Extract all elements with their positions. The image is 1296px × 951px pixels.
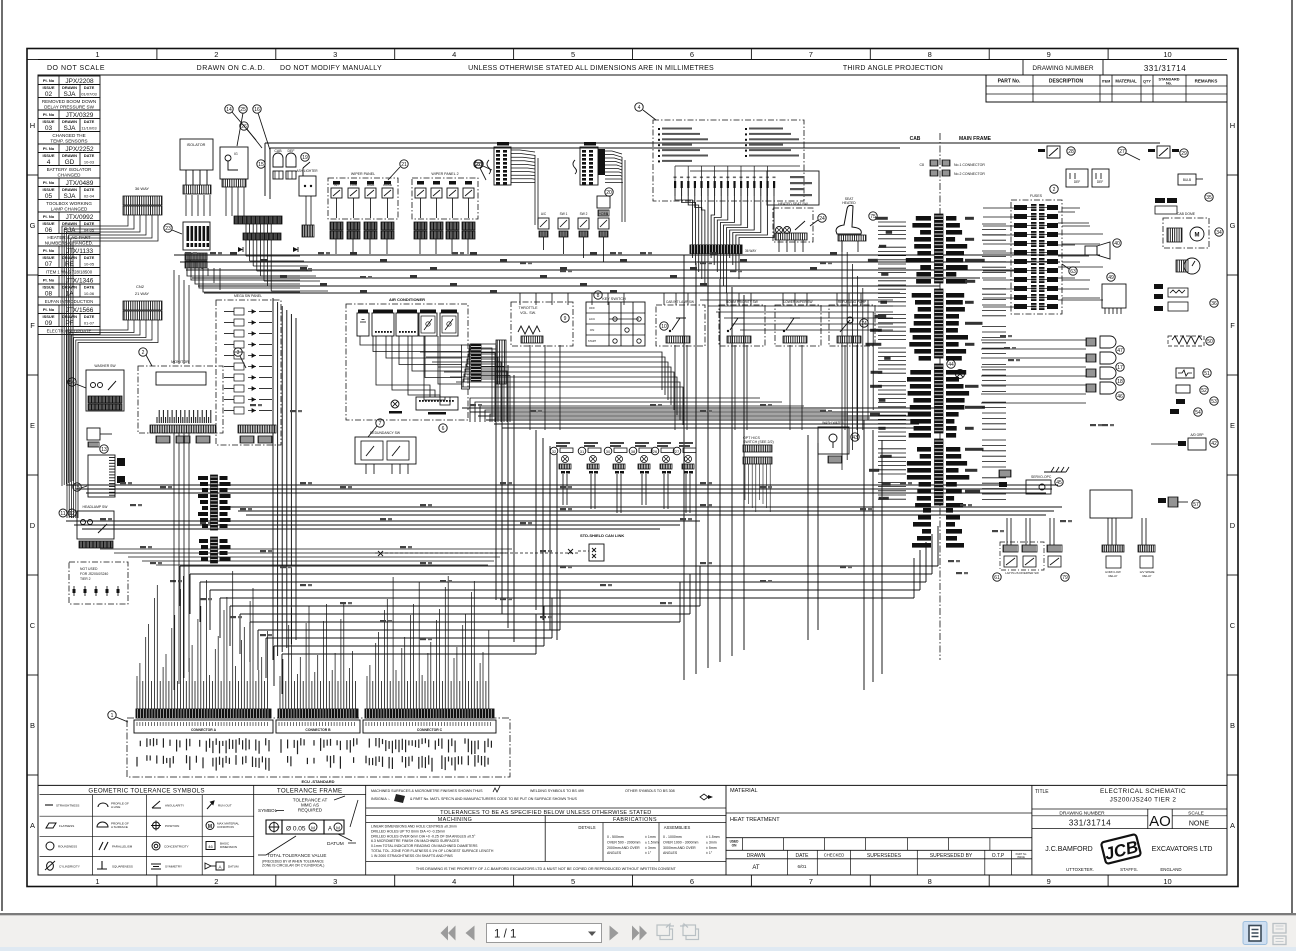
svg-text:WASH WATER: WASH WATER — [822, 421, 844, 425]
svg-text:ISSUE: ISSUE — [42, 153, 54, 158]
sheet size cell AO — [1148, 809, 1172, 830]
relay R29 — [1148, 146, 1179, 158]
svg-text:DATE: DATE — [84, 221, 95, 226]
boom priority switch box — [719, 300, 765, 346]
lower-left feeder lines — [100, 549, 512, 565]
svg-text:GEOMETRIC TOLERANCE SYMBOLS: GEOMETRIC TOLERANCE SYMBOLS — [88, 787, 205, 794]
svg-text:MEGA SW PANEL: MEGA SW PANEL — [234, 294, 262, 298]
svg-text:MACHINING: MACHINING — [438, 817, 472, 823]
callout 17 — [1116, 363, 1124, 371]
svg-text:Ø 0.05: Ø 0.05 — [286, 826, 306, 833]
viewer right window edge — [1291, 0, 1293, 913]
svg-text:08: 08 — [45, 290, 53, 297]
CAN link connector — [375, 544, 604, 561]
svg-text:0 - 500mm: 0 - 500mm — [607, 835, 624, 839]
svg-text:DETAILS: DETAILS — [578, 825, 595, 830]
svg-text:TEMP. SENSORS: TEMP. SENSORS — [50, 138, 87, 143]
horn low/high relay — [1102, 545, 1124, 578]
svg-text:FUSES: FUSES — [1030, 194, 1043, 198]
svg-text:12: 12 — [69, 511, 75, 517]
svg-text:61: 61 — [994, 575, 1000, 581]
svg-text:SERVO-OPC: SERVO-OPC — [1031, 475, 1052, 479]
svg-text:CAB: CAB — [274, 149, 282, 153]
callout 28 — [1067, 147, 1075, 155]
svg-text:± 1mm: ± 1mm — [645, 835, 656, 839]
svg-text:CAB DOME: CAB DOME — [1177, 212, 1196, 216]
revision history table — [38, 76, 100, 335]
svg-text:ON: ON — [732, 844, 737, 848]
svg-text:IG: IG — [234, 152, 238, 156]
tolerance symbol angularity — [152, 801, 184, 808]
wiper panel 2 connectors — [414, 181, 475, 254]
wires fanning from CN2 — [67, 320, 158, 518]
svg-text:NOT USED: NOT USED — [80, 567, 98, 571]
redundancy switch box — [355, 431, 416, 474]
svg-text:DO NOT SCALE: DO NOT SCALE — [47, 65, 105, 72]
callout 54 — [1194, 408, 1202, 416]
used on row — [726, 838, 1032, 851]
monitor connector strip — [150, 425, 216, 433]
svg-text:3: 3 — [333, 877, 337, 886]
callout 7 — [368, 419, 384, 437]
wire bus upper (battery feeds) — [174, 255, 1100, 293]
relay R28 — [1038, 146, 1060, 158]
wiper motor switch box — [86, 364, 124, 411]
callout 15b — [73, 483, 87, 491]
cab int lamp switch box — [656, 300, 705, 346]
svg-text:WIPER PANEL 2: WIPER PANEL 2 — [431, 172, 458, 176]
svg-text:KEY SWITCH: KEY SWITCH — [602, 297, 626, 301]
horn H3 — [1086, 367, 1116, 379]
bus risers left cluster — [190, 255, 220, 290]
resistor bank top right — [1168, 336, 1204, 346]
callout 20a — [475, 160, 492, 170]
cab dome lamp box — [1163, 212, 1209, 248]
svg-text:TOLERANCE FRAME: TOLERANCE FRAME — [277, 787, 343, 794]
tolerance symbol basic dimension — [206, 842, 237, 850]
svg-text:No.2 CONNECTOR: No.2 CONNECTOR — [954, 172, 985, 176]
left margin long verticals — [174, 270, 189, 690]
svg-text:02: 02 — [45, 91, 53, 98]
mega switch rows — [224, 308, 272, 414]
svg-text:CONNECTOR A: CONNECTOR A — [191, 728, 217, 732]
svg-text:M: M — [1195, 233, 1200, 239]
wire bus lower B — [230, 507, 1062, 515]
svg-text:ASH LIGHTER: ASH LIGHTER — [296, 169, 318, 173]
wiper panel 1 connectors — [330, 181, 394, 254]
svg-text:10: 10 — [661, 324, 667, 330]
callout 9 — [561, 314, 569, 322]
svg-text:DRAWN: DRAWN — [62, 85, 77, 90]
callout 51 — [1203, 369, 1211, 377]
air conditioner box — [346, 297, 468, 420]
starter key unit box — [220, 147, 248, 179]
svg-text:REMARKS: REMARKS — [1195, 79, 1218, 84]
svg-text:EXCAVATORS LTD: EXCAVATORS LTD — [1152, 846, 1213, 853]
svg-text:ECU -STANDARD: ECU -STANDARD — [301, 779, 334, 784]
callout 29 — [1180, 149, 1188, 157]
svg-text:THROTTLE: THROTTLE — [519, 306, 539, 310]
surface finish note line 1 — [371, 786, 675, 793]
svg-text:16: 16 — [254, 107, 260, 113]
svg-text:35: 35 — [1206, 195, 1212, 201]
callout 25 — [237, 105, 247, 146]
servo opc unit — [999, 470, 1052, 494]
callout 23 — [164, 224, 182, 234]
svg-text:32: 32 — [552, 449, 557, 454]
svg-text:63: 63 — [1070, 269, 1076, 275]
svg-text:JTX/0489: JTX/0489 — [66, 180, 94, 187]
svg-text:02-04: 02-04 — [84, 193, 95, 198]
aux comps right F — [1154, 284, 1188, 311]
misc sender — [1176, 399, 1185, 404]
svg-text:8: 8 — [928, 50, 932, 59]
svg-text:30: 30 — [606, 449, 611, 454]
svg-text:40: 40 — [1114, 241, 1120, 247]
svg-text:UNLESS OTHERWISE STATED ALL DI: UNLESS OTHERWISE STATED ALL DIMENSIONS A… — [468, 65, 714, 72]
wire top right run — [265, 143, 1160, 199]
svg-text:11: 11 — [60, 511, 65, 517]
svg-text:C: C — [1230, 621, 1236, 630]
throttle volume switch box — [511, 302, 573, 346]
callout 14 — [225, 105, 256, 140]
previous page button — [466, 926, 475, 941]
svg-text:RUN OUT: RUN OUT — [218, 804, 232, 808]
svg-text:331/31714: 331/31714 — [1144, 64, 1186, 73]
callout 36 — [1210, 299, 1218, 307]
ash lighter drop wire — [306, 196, 311, 225]
svg-text:20: 20 — [606, 190, 612, 196]
svg-text:REDUNDANCY SW: REDUNDANCY SW — [370, 431, 401, 435]
svg-text:VOL. SW.: VOL. SW. — [520, 311, 536, 315]
svg-text:UTTOXETER.: UTTOXETER. — [1066, 867, 1094, 872]
stack-to-right wires mid — [981, 340, 1086, 403]
title section — [1032, 785, 1186, 875]
svg-text:09: 09 — [45, 320, 53, 327]
horn H1 — [1086, 336, 1116, 348]
svg-text:HEAT TREATMENT: HEAT TREATMENT — [730, 817, 780, 823]
ECU wire label bars C — [366, 738, 491, 772]
svg-text:Pl. No: Pl. No — [43, 146, 55, 151]
legend pin up-stubs — [675, 166, 800, 181]
wires from connector 23 — [187, 268, 300, 292]
tolerance frame datum label — [327, 834, 356, 847]
svg-text:Pl. No: Pl. No — [43, 248, 55, 253]
svg-text:6: 6 — [690, 50, 694, 59]
vertical wire bundle right of centre — [808, 420, 882, 690]
tolerance symbol cylindricity — [45, 861, 80, 870]
svg-text:A: A — [328, 827, 332, 833]
tolerance symbol straightness — [45, 804, 79, 808]
svg-text:MAIN FRAME: MAIN FRAME — [959, 136, 992, 142]
svg-text:A/D GRP: A/D GRP — [1190, 433, 1203, 437]
fuel sender — [1176, 368, 1194, 378]
svg-text:DRAWN: DRAWN — [62, 221, 77, 226]
svg-text:± 1.5mm: ± 1.5mm — [706, 835, 720, 839]
callout 45 — [1055, 478, 1063, 486]
tolerance symbol parallelism — [99, 842, 133, 850]
svg-text:WELDING SYMBOLS TO BS 499: WELDING SYMBOLS TO BS 499 — [530, 789, 584, 793]
callout 11 12 — [59, 509, 76, 517]
svg-text:24: 24 — [819, 216, 825, 222]
svg-text:23: 23 — [165, 226, 171, 232]
wires below main cab connector — [693, 254, 740, 294]
main harness connector strip lower — [243, 233, 281, 240]
svg-text:RELAY: RELAY — [1109, 574, 1118, 578]
svg-text:DATUM: DATUM — [327, 841, 344, 847]
ECU connector B — [276, 709, 360, 733]
connector block with fan (console) — [573, 142, 623, 185]
wires fanning from CN1 — [62, 215, 158, 486]
svg-text:JTX/1566: JTX/1566 — [66, 307, 94, 314]
wire bus mid (cab harness) — [462, 408, 935, 428]
svg-text:Pl. No: Pl. No — [43, 180, 55, 185]
svg-text:Pl. No: Pl. No — [43, 278, 55, 283]
connector fan left of key switch — [463, 340, 506, 387]
toolbar background — [0, 915, 1296, 947]
svg-text:DATE: DATE — [84, 314, 95, 319]
svg-text:1: 1 — [95, 50, 99, 59]
battery isolator box — [180, 139, 213, 185]
callout 26 — [240, 122, 262, 148]
svg-text:JTX/0992: JTX/0992 — [66, 214, 94, 221]
svg-text:04-05: 04-05 — [84, 227, 95, 232]
svg-text:51: 51 — [1204, 371, 1210, 377]
company address — [1066, 867, 1181, 872]
callout 19 — [301, 153, 309, 161]
fabrications details text — [607, 835, 659, 855]
svg-text:2000mm AND OVER: 2000mm AND OVER — [607, 846, 640, 850]
svg-text:6.3 MICROMETRE FINISH ON MACHI: 6.3 MICROMETRE FINISH ON MACHINED SURFAC… — [371, 839, 460, 843]
key switch table — [586, 297, 645, 346]
svg-text:0.1mm TOTAL INDICATOR READING: 0.1mm TOTAL INDICATOR READING ON MACHINE… — [371, 844, 478, 848]
svg-text:TOOLBOX WORKING: TOOLBOX WORKING — [46, 201, 92, 206]
svg-text:Pl. No: Pl. No — [43, 78, 55, 83]
tolerance symbol symmetry — [151, 864, 182, 869]
svg-text:ISSUE: ISSUE — [42, 285, 54, 290]
svg-text:26: 26 — [653, 449, 658, 454]
fabrications assemblies text — [663, 835, 720, 855]
svg-text:ISSUE: ISSUE — [42, 187, 54, 192]
svg-text:38: 38 — [631, 449, 636, 454]
main cab connector (dense) — [690, 245, 757, 254]
toolbar bottom strip — [0, 947, 1296, 951]
svg-text:ANGLES: ANGLES — [607, 851, 622, 855]
drawn row — [726, 850, 1032, 875]
svg-text:4: 4 — [638, 105, 641, 111]
svg-text:C: C — [30, 621, 36, 630]
svg-text:TOTAL TOL. ZONE FOR FLATNESS 0: TOTAL TOL. ZONE FOR FLATNESS 0.1% OF LON… — [371, 849, 494, 853]
svg-text:START: START — [588, 339, 597, 343]
connector block CN1 top-left — [123, 186, 162, 215]
svg-text:79: 79 — [1062, 575, 1068, 581]
svg-text:27: 27 — [1119, 149, 1125, 155]
pressure switch row — [550, 442, 696, 513]
svg-text:01-07: 01-07 — [84, 320, 95, 325]
svg-text:3000mm AND OVER: 3000mm AND OVER — [663, 846, 696, 850]
svg-text:42: 42 — [1211, 441, 1217, 447]
svg-text:JTX/1346: JTX/1346 — [66, 277, 94, 284]
relay feed verticals — [1007, 518, 1146, 545]
svg-text:15: 15 — [74, 485, 80, 491]
svg-text:SJA: SJA — [64, 193, 77, 200]
svg-text:± 1.5mm: ± 1.5mm — [645, 840, 659, 844]
svg-text:2: 2 — [142, 350, 145, 356]
svg-text:B: B — [30, 721, 35, 730]
svg-text:54: 54 — [1195, 410, 1201, 416]
diode block column lower — [199, 537, 231, 563]
svg-text:DATE: DATE — [84, 153, 95, 158]
svg-text:TIER 2: TIER 2 — [80, 577, 91, 581]
callout 4 — [635, 103, 656, 120]
svg-text:1 / 1: 1 / 1 — [494, 929, 516, 941]
callout 13 — [100, 445, 108, 453]
svg-text:2: 2 — [214, 877, 218, 886]
svg-text:ITEM: ITEM — [1102, 80, 1111, 84]
svg-text:SW 2: SW 2 — [580, 212, 588, 216]
air conditioner actuators — [357, 310, 458, 337]
svg-text:MATERIAL: MATERIAL — [1115, 79, 1137, 84]
svg-text:31: 31 — [580, 449, 585, 454]
ECU connector A — [134, 709, 273, 733]
svg-text:56: 56 — [69, 380, 75, 386]
heated seat element (seat profile) — [836, 197, 866, 252]
svg-text:AT: AT — [752, 865, 760, 871]
svg-text:CHANGED THE: CHANGED THE — [52, 133, 85, 138]
svg-text:18: 18 — [1117, 379, 1123, 385]
svg-text:57: 57 — [1193, 502, 1199, 508]
callout 3 — [234, 348, 246, 368]
CAB / MAIN FRAME boundary line — [939, 133, 941, 660]
svg-text:A: A — [218, 865, 221, 870]
svg-text:OFF: OFF — [589, 306, 595, 310]
bulb box — [1178, 174, 1203, 185]
svg-text:A LINE: A LINE — [111, 805, 120, 809]
wiper panel group 1 — [328, 172, 398, 219]
svg-text:THIRD ANGLE PROJECTION: THIRD ANGLE PROJECTION — [843, 65, 943, 72]
next page button — [610, 926, 619, 941]
svg-text:DATE: DATE — [84, 119, 95, 124]
svg-text:Pl. No: Pl. No — [43, 307, 55, 312]
svg-text:TOTAL TOLERANCE VALUE: TOTAL TOLERANCE VALUE — [267, 853, 326, 858]
svg-text:36 WAY: 36 WAY — [745, 249, 757, 253]
wire fan from legend pins to connector — [675, 196, 774, 245]
heated seat switch box — [773, 202, 813, 252]
svg-text:OVER 500 - 2000mm: OVER 500 - 2000mm — [607, 840, 641, 844]
svg-text:ELECTRICAL SCHEMATIC: ELECTRICAL SCHEMATIC — [1100, 788, 1186, 795]
svg-text:DATE: DATE — [796, 853, 810, 859]
svg-text:SUPERSEDED BY: SUPERSEDED BY — [930, 853, 973, 859]
svg-text:SUPERSEDES: SUPERSEDES — [867, 853, 902, 859]
callout 44 — [947, 360, 955, 368]
ECU connector B fan — [280, 602, 355, 710]
svg-text:FLATNESS: FLATNESS — [59, 824, 74, 828]
stack left approach verticals — [842, 240, 873, 470]
svg-text:MACHINED SURFACES & MICROMETRE: MACHINED SURFACES & MICROMETRE FINISHES … — [371, 789, 483, 793]
svg-text:2: 2 — [1053, 187, 1056, 193]
not used box — [69, 562, 128, 604]
svg-text:FABRICATIONS: FABRICATIONS — [613, 817, 657, 823]
svg-text:& PART No. MAT'L SPEC'N AND MA: & PART No. MAT'L SPEC'N AND MANUFACTURER… — [410, 797, 577, 801]
svg-text:SYMBOL: SYMBOL — [258, 808, 278, 813]
svg-text:± 3mm: ± 3mm — [645, 846, 656, 850]
mega panel connector strip — [238, 425, 276, 433]
svg-text:34: 34 — [1216, 230, 1222, 236]
callout 52 — [1200, 386, 1208, 394]
wire bus lower C — [66, 521, 700, 529]
header DRAWING NUMBER cell — [1022, 60, 1024, 76]
svg-text:LOWER WIPER SW: LOWER WIPER SW — [783, 300, 812, 304]
svg-text:CYLINDRICITY: CYLINDRICITY — [59, 865, 80, 869]
water temp sender — [1176, 385, 1190, 393]
svg-text:Pl. No: Pl. No — [43, 214, 55, 219]
callout 15 — [257, 160, 265, 168]
svg-text:H: H — [1230, 121, 1235, 130]
callout 1 — [108, 711, 128, 722]
callout 49 — [1107, 273, 1115, 281]
svg-text:AO: AO — [1149, 813, 1171, 830]
isolator drop wires — [186, 187, 244, 216]
callout 63 — [1062, 264, 1077, 275]
svg-text:CONNECTOR B: CONNECTOR B — [305, 728, 331, 732]
last page button — [632, 926, 647, 941]
svg-text:LAP PLUS DIVERTER SW: LAP PLUS DIVERTER SW — [1005, 571, 1039, 575]
stack left wire fan — [878, 222, 906, 499]
svg-text:OTHER SYMBOLS TO BS 308: OTHER SYMBOLS TO BS 308 — [625, 789, 675, 793]
svg-text:28: 28 — [1068, 149, 1074, 155]
svg-text:RELAY: RELAY — [1143, 574, 1152, 578]
strip interlink wires — [246, 224, 328, 291]
air conditioner external wires — [481, 348, 510, 422]
svg-text:27: 27 — [675, 449, 680, 454]
svg-text:DELAY PRESSURE SW: DELAY PRESSURE SW — [44, 104, 95, 109]
svg-text:46: 46 — [1117, 394, 1123, 400]
wiper panel group 2 — [412, 172, 478, 219]
svg-text:OVER 1000 - 3000mm: OVER 1000 - 3000mm — [663, 840, 698, 844]
svg-text:ANGLES: ANGLES — [663, 851, 678, 855]
svg-text:EUFAN INTRODUCTION: EUFAN INTRODUCTION — [45, 299, 93, 304]
tolerance symbol datum — [205, 862, 239, 870]
svg-text:8: 8 — [597, 293, 600, 299]
svg-text:DIMENSION: DIMENSION — [220, 845, 237, 849]
viewer left window edge — [1, 0, 3, 911]
wire label ticks scatter — [100, 252, 1114, 640]
small component box above relay row — [597, 196, 610, 216]
svg-text:ISSUE: ISSUE — [1017, 855, 1025, 859]
svg-text:± 1°: ± 1° — [706, 851, 713, 855]
tolerance symbol concentricity — [152, 842, 189, 850]
callout 43 — [851, 433, 859, 441]
svg-text:ANGULARITY: ANGULARITY — [165, 804, 184, 808]
diode block column upper — [198, 475, 231, 530]
callout 10 — [660, 322, 668, 330]
svg-text:CONCENTRICITY: CONCENTRICITY — [164, 845, 189, 849]
switch row feed drops — [520, 293, 861, 430]
svg-text:15: 15 — [258, 162, 264, 168]
callout 20 — [605, 188, 613, 196]
svg-text:ISOLATOR: ISOLATOR — [187, 143, 206, 147]
harness legend box — [653, 120, 804, 201]
svg-text:3: 3 — [237, 350, 240, 356]
svg-text:19: 19 — [302, 155, 308, 161]
svg-text:SJA: SJA — [64, 91, 77, 98]
svg-text:75: 75 — [870, 214, 876, 220]
svg-text:POSITION: POSITION — [165, 824, 179, 828]
air conditioner main connector — [462, 344, 482, 389]
svg-text:TOLERANCES TO BE AS SPECIFIED: TOLERANCES TO BE AS SPECIFIED BELOW UNLE… — [440, 810, 651, 816]
fuse panel feed wires — [1062, 208, 1100, 298]
fan descent wires — [535, 155, 625, 225]
